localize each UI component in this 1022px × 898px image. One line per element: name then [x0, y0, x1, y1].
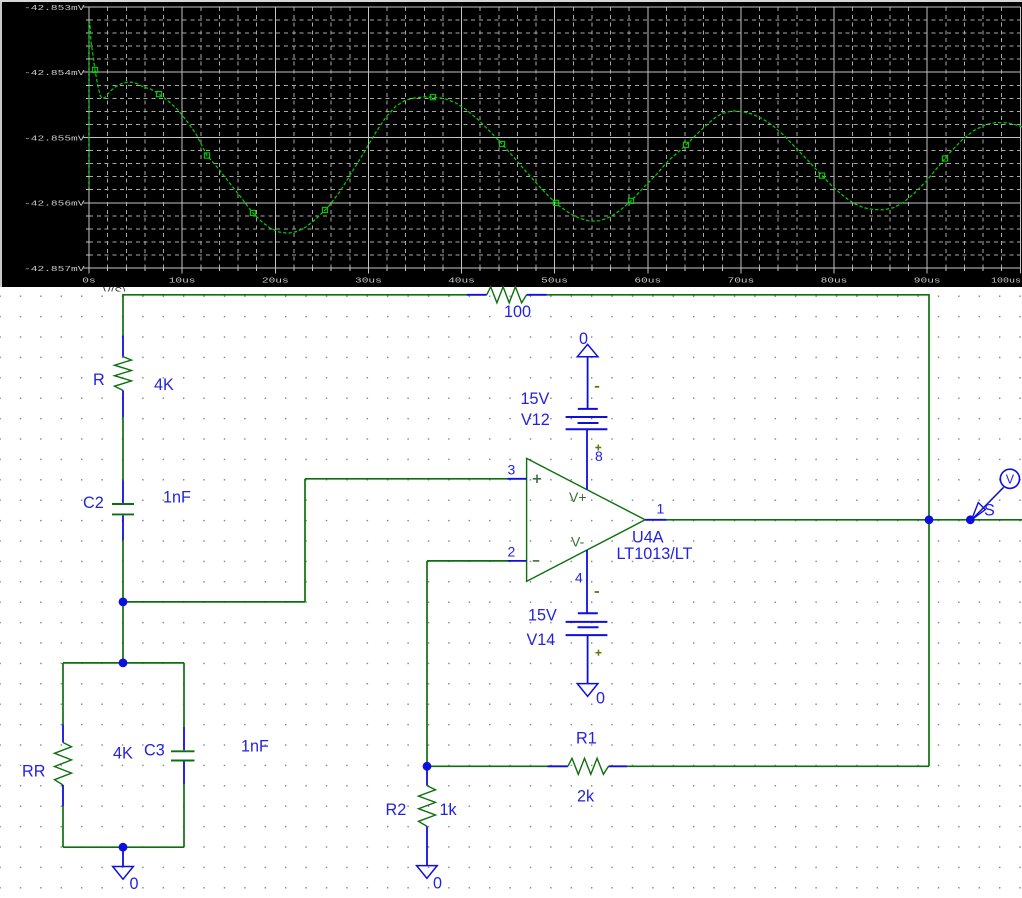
svg-text:3: 3: [508, 461, 516, 477]
svg-text:30us: 30us: [355, 278, 382, 286]
svg-text:1nF: 1nF: [241, 738, 269, 756]
svg-text:-42.857mV: -42.857mV: [24, 266, 85, 274]
resistor R2: [419, 766, 436, 865]
svg-text:C3: C3: [144, 742, 165, 760]
svg-text:60us: 60us: [634, 278, 661, 286]
label R2: [386, 801, 407, 819]
resistor RR: [55, 725, 72, 807]
svg-text:1: 1: [657, 501, 665, 517]
resistor 100 (top): [466, 287, 547, 303]
label RR: [22, 763, 45, 781]
svg-text:1nF: 1nF: [163, 489, 191, 507]
resistor R1: [548, 758, 628, 774]
axis ticks: [84, 7, 1021, 274]
probe window chrome: [0, 0, 1022, 292]
ground 0 above V12: [577, 330, 598, 409]
trace V(S): [89, 23, 1022, 233]
svg-text:100us: 100us: [991, 278, 1021, 286]
value label 100: [504, 303, 531, 321]
svg-text:-42.855mV: -42.855mV: [24, 135, 85, 143]
svg-text:R1: R1: [576, 730, 597, 748]
svg-text:V14: V14: [527, 631, 556, 649]
svg-text:1k: 1k: [440, 801, 458, 819]
label V14: [527, 631, 556, 649]
svg-text:0: 0: [596, 690, 605, 708]
value 4K of RR: [113, 745, 133, 763]
svg-text:U4A: U4A: [632, 529, 664, 547]
wire parallel RC rails: [63, 663, 184, 847]
op-amp U4A triangle: [527, 458, 646, 581]
svg-text:0: 0: [433, 875, 442, 893]
ground 0 below R2: [417, 866, 442, 893]
node junction at RC top rail: [119, 659, 128, 668]
x axis labels: [82, 278, 1021, 286]
wire left vertical segment: [122, 294, 124, 663]
ground 0 below RC: [113, 847, 139, 893]
label C2: [83, 494, 104, 512]
svg-text:4K: 4K: [113, 745, 133, 763]
plot major grid: [89, 7, 1020, 268]
op-amp pin 8 V+: [569, 429, 603, 505]
wire top net from R top to right rail: [123, 294, 929, 296]
svg-text:15V: 15V: [528, 607, 557, 625]
label U4A: [632, 529, 664, 547]
op-amp pin 2: [508, 543, 527, 561]
svg-text:-42.854mV: -42.854mV: [24, 70, 85, 78]
svg-text:C2: C2: [83, 494, 104, 512]
svg-text:50us: 50us: [541, 278, 568, 286]
resistor R: [115, 336, 132, 418]
label 15V of V12: [521, 390, 550, 408]
battery V14: [566, 592, 608, 656]
svg-text:S: S: [984, 502, 995, 520]
node junction at C2 bottom: [119, 598, 128, 607]
svg-text:10us: 10us: [169, 278, 196, 286]
svg-text:R2: R2: [386, 801, 407, 819]
svg-text:40us: 40us: [448, 278, 475, 286]
label V12: [521, 411, 550, 429]
label R1: [576, 730, 597, 748]
svg-text:-42.853mV: -42.853mV: [24, 5, 85, 13]
battery V12: [566, 387, 608, 451]
label LT1013/LT: [617, 545, 693, 563]
node junction probe attach: [966, 515, 975, 524]
capacitor C2: [112, 481, 134, 541]
voltage marker probe V: [972, 469, 1020, 520]
svg-text:90us: 90us: [914, 278, 941, 286]
legend remnant V(S): [103, 287, 126, 299]
node junction at RC bottom rail: [119, 843, 128, 852]
svg-text:V: V: [1006, 472, 1015, 486]
schematic background dot grid: [0, 292, 1022, 898]
op-amp pin 4 V-: [571, 534, 587, 614]
svg-text:V12: V12: [521, 411, 550, 429]
wire op-amp pin 2 to feedback node: [427, 561, 508, 766]
svg-text:15V: 15V: [521, 390, 550, 408]
label 15V of V14: [528, 607, 557, 625]
value 1nF of C3: [241, 738, 269, 756]
node junction feedback: [423, 762, 432, 771]
svg-text:4K: 4K: [154, 376, 174, 394]
svg-text:0: 0: [130, 875, 139, 893]
svg-text:2: 2: [508, 543, 516, 559]
value 2k of R1: [577, 788, 595, 806]
ground 0 below V14: [577, 635, 605, 707]
value 1nF of C2: [163, 489, 191, 507]
op-amp pin 3: [508, 461, 527, 479]
svg-text:RR: RR: [22, 763, 45, 781]
wire op-amp output net S: [667, 519, 1022, 521]
svg-text:2k: 2k: [577, 788, 595, 806]
svg-text:0s: 0s: [82, 278, 95, 286]
svg-text:100: 100: [504, 303, 531, 321]
value 1k of R2: [440, 801, 458, 819]
svg-text:LT1013/LT: LT1013/LT: [617, 545, 693, 563]
capacitor C3: [171, 727, 195, 784]
label C3: [144, 742, 165, 760]
wire from node A to op-amp pin 3: [123, 479, 508, 602]
svg-text:20us: 20us: [262, 278, 289, 286]
node junction output at right rail: [925, 515, 934, 524]
value 4K of R: [154, 376, 174, 394]
svg-text:70us: 70us: [728, 278, 755, 286]
op-amp pin 1 output: [645, 501, 667, 520]
svg-text:V-: V-: [571, 534, 585, 550]
svg-text:-42.856mV: -42.856mV: [24, 201, 85, 209]
svg-text:R: R: [93, 371, 105, 389]
y axis labels: [24, 5, 85, 274]
svg-text:80us: 80us: [821, 278, 848, 286]
net label S: [984, 502, 995, 520]
label R: [93, 371, 105, 389]
wire right vertical rail: [928, 294, 930, 766]
svg-text:V+: V+: [569, 489, 587, 505]
svg-text:4: 4: [575, 570, 583, 586]
wire feedback node to R1 and right rail: [427, 765, 929, 767]
plot minor grid: [89, 7, 1020, 268]
